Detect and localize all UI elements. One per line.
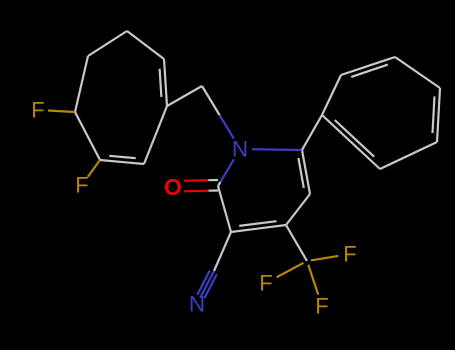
bond C4 - CF3 carbon <box>286 225 307 261</box>
nitrogen label N (nitrile) <box>189 292 205 317</box>
carbonyl double bond C2=O <box>184 180 218 191</box>
svg-text:F: F <box>75 173 88 198</box>
bond CF3 carbon to lower F <box>308 265 318 295</box>
svg-text:N: N <box>189 292 205 317</box>
benzene ring A (3,4-difluorophenyl), outline <box>75 31 167 164</box>
bond C3 - nitrile carbon <box>214 232 231 271</box>
nitrile triple bond C#N <box>197 271 216 299</box>
fluorine label F (ring A, para) <box>31 98 44 123</box>
bond C6 - phenyl ipso <box>302 115 322 150</box>
svg-text:F: F <box>315 294 328 319</box>
svg-text:F: F <box>259 271 272 296</box>
bond ring A to para-F <box>48 111 75 113</box>
svg-text:O: O <box>164 174 182 200</box>
bond CF3 carbon to left F <box>277 263 304 277</box>
fluorine label F (CF3, left) <box>259 271 272 296</box>
nitrogen label N1 (ring) <box>232 137 248 162</box>
svg-text:F: F <box>343 242 356 267</box>
phenyl ring B (6-phenyl), outline with kekule inner lines <box>322 57 440 169</box>
pyridin-2(1H)-one ring bonds <box>218 149 310 232</box>
fluorine label F (CF3, lower) <box>315 294 328 319</box>
bond CH2 - N1 <box>202 86 234 139</box>
bond CF3 carbon to upper right F <box>311 256 338 261</box>
fluorine label F (ring A, meta) <box>75 173 88 198</box>
svg-text:F: F <box>31 98 44 123</box>
bond ring A - CH2 (benzylic) <box>167 86 202 106</box>
bond ring A to meta-F <box>88 160 100 177</box>
svg-text:N: N <box>232 137 248 162</box>
fluorine label F (CF3, upper right) <box>343 242 356 267</box>
oxygen label O <box>164 174 182 200</box>
